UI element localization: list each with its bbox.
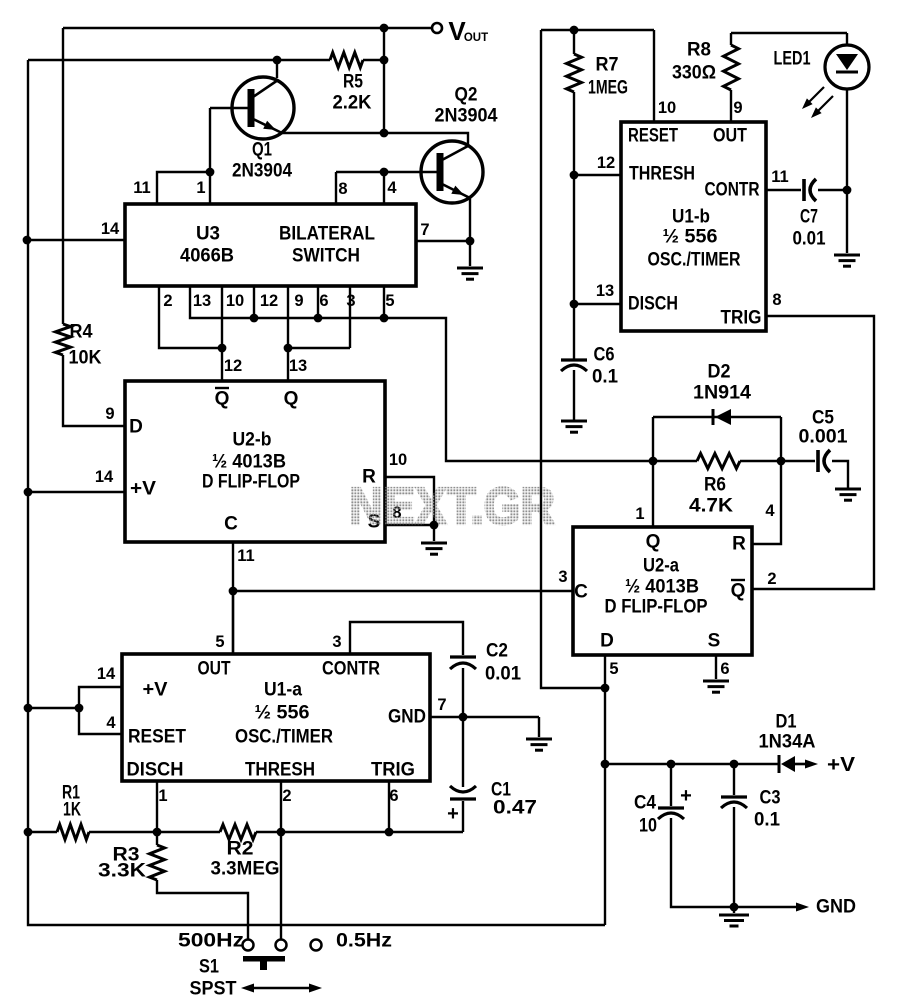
svg-text:+V: +V	[143, 680, 168, 701]
pin label 5	[385, 292, 394, 310]
junction dot rail pin6	[385, 828, 394, 837]
junction dot rail pin2	[277, 828, 286, 837]
pin label 2 U2-a	[767, 570, 776, 588]
svg-text:12: 12	[260, 292, 278, 310]
svg-text:RESET: RESET	[628, 126, 678, 147]
pin label 7	[420, 221, 429, 239]
svg-text:C6: C6	[594, 345, 615, 366]
wire pin11 link	[157, 172, 210, 204]
svg-text:5: 5	[609, 660, 618, 678]
pin label 14	[101, 220, 120, 238]
resistor R8	[672, 33, 739, 90]
junction dot +V left	[24, 488, 33, 497]
junction dot Q2 base node	[380, 168, 389, 177]
svg-text:0.01: 0.01	[793, 229, 826, 250]
wire U3 pin14	[27, 239, 125, 241]
wire rail R2-C1	[256, 831, 463, 833]
wire pin9 link	[288, 347, 350, 349]
svg-text:OSC./TIMER: OSC./TIMER	[235, 727, 333, 748]
wire U1-b CONTR	[766, 189, 801, 191]
ground GND rail	[719, 907, 749, 926]
svg-text:R8: R8	[687, 40, 711, 61]
svg-text:13: 13	[193, 292, 211, 310]
wire R7 down	[573, 92, 575, 360]
junction dot top rail	[380, 24, 389, 33]
svg-text:R: R	[732, 534, 746, 555]
svg-text:TRIG: TRIG	[721, 308, 762, 329]
svg-text:0.01: 0.01	[485, 664, 521, 685]
svg-text:1: 1	[158, 787, 167, 805]
svg-text:1K: 1K	[63, 800, 81, 821]
junction dot +V branch	[75, 704, 84, 713]
capacitor C1	[447, 780, 537, 826]
svg-text:10K: 10K	[69, 348, 102, 369]
svg-text:4: 4	[387, 179, 397, 197]
pin label 2 U1-a	[282, 787, 291, 805]
wire U1-b pin10 stub	[653, 30, 655, 122]
capacitor C6	[561, 345, 618, 388]
svg-text:3: 3	[332, 633, 341, 651]
wire Q2 emitter down	[469, 198, 471, 266]
wire U3 pin7	[416, 240, 470, 242]
ground LED	[834, 255, 860, 266]
ground C5	[835, 489, 861, 500]
svg-text:0.1: 0.1	[754, 810, 780, 831]
svg-text:OUT: OUT	[464, 32, 488, 44]
wire Q1 emitter to Q2 collector	[281, 133, 468, 147]
svg-text:GND: GND	[816, 897, 856, 918]
terminal 0.5Hz	[311, 931, 393, 952]
wire U1-a pin3 to C2	[350, 622, 463, 655]
wire U3 pin9	[287, 286, 289, 348]
wire R3 to switch	[157, 880, 248, 940]
pin label 5 U1-a	[215, 633, 224, 651]
svg-text:2: 2	[282, 787, 291, 805]
svg-text:½ 4013B: ½ 4013B	[212, 452, 286, 473]
wire U2-a Q stub	[652, 461, 654, 527]
wire C2 to GND node	[462, 668, 464, 717]
svg-text:12: 12	[224, 357, 242, 375]
junction dot +V rail	[24, 704, 33, 713]
pin label 9 U1-b	[733, 99, 742, 117]
transistor Q1	[210, 77, 294, 182]
svg-text:THRESH: THRESH	[245, 760, 315, 781]
pin label 4	[387, 179, 397, 197]
wire bottom rail left	[28, 831, 57, 833]
wire C5 to ground	[832, 461, 848, 488]
svg-text:14: 14	[97, 665, 116, 683]
IC U1-b 556 box	[621, 122, 766, 331]
wire U3 pin12	[253, 286, 255, 318]
svg-text:8: 8	[338, 180, 347, 198]
junction dot emitter node	[380, 129, 389, 138]
svg-text:D FLIP-FLOP: D FLIP-FLOP	[202, 472, 300, 493]
svg-text:U2-b: U2-b	[233, 430, 272, 451]
svg-text:C: C	[224, 514, 238, 535]
terminal 500Hz	[178, 931, 254, 952]
svg-text:11: 11	[237, 547, 254, 565]
wire U1-b TRIG	[752, 316, 874, 589]
arrow LED emission 2	[811, 96, 833, 118]
wire U2-b S pin	[385, 524, 434, 526]
svg-text:9: 9	[294, 292, 303, 310]
svg-text:2.2K: 2.2K	[333, 93, 372, 114]
svg-text:C: C	[574, 582, 588, 603]
svg-text:D2: D2	[708, 362, 731, 383]
wire left long vertical +V	[28, 60, 605, 925]
wire C4 down	[671, 818, 734, 907]
wire U2-b R pin	[385, 477, 434, 541]
svg-text:D: D	[129, 417, 143, 438]
svg-text:C4: C4	[634, 793, 656, 814]
svg-text:0.5Hz: 0.5Hz	[336, 931, 392, 952]
capacitor C4	[634, 764, 692, 837]
pin label 2	[163, 292, 172, 310]
junction dot C4 top	[667, 760, 676, 769]
svg-text:11: 11	[133, 179, 150, 197]
pin label 4 U2-a	[765, 502, 775, 520]
svg-text:9: 9	[105, 405, 114, 423]
svg-text:+: +	[447, 803, 459, 825]
svg-text:D FLIP-FLOP: D FLIP-FLOP	[605, 597, 708, 618]
svg-text:SPST: SPST	[190, 979, 237, 1000]
junction dot C7 node	[843, 186, 852, 195]
svg-text:Q: Q	[646, 532, 661, 553]
svg-text:OUT: OUT	[198, 659, 231, 680]
svg-text:0.001: 0.001	[799, 427, 848, 448]
wire U3 pin4 stub	[383, 172, 385, 204]
wire R8 pin9 stub	[730, 90, 732, 122]
svg-text:SWITCH: SWITCH	[292, 246, 360, 267]
junction dot R6 right	[777, 457, 786, 466]
svg-text:U2-a: U2-a	[643, 556, 679, 577]
wire U3 pin2	[159, 286, 222, 348]
svg-text:3.3K: 3.3K	[98, 861, 146, 882]
junction dot pin14 node	[23, 236, 32, 245]
resistor R1	[57, 783, 89, 840]
svg-text:6: 6	[720, 660, 729, 678]
wire R5 right lead	[363, 59, 384, 61]
svg-text:13: 13	[596, 282, 614, 300]
wire right long vertical	[541, 30, 605, 688]
junction dot pin6 node	[314, 314, 323, 323]
pin label 11	[133, 179, 150, 197]
svg-text:10: 10	[226, 292, 244, 310]
wire +V vertical	[604, 688, 606, 925]
wire R6 to C5	[781, 460, 815, 462]
junction dot C node	[229, 587, 238, 596]
wire U1-a +V pin	[79, 687, 122, 734]
svg-text:11: 11	[771, 168, 788, 186]
capacitor C5	[799, 408, 848, 473]
wire U3 pin13 bus	[190, 286, 653, 461]
svg-text:2N3904: 2N3904	[435, 106, 498, 127]
transistor Q2	[336, 85, 498, 204]
svg-text:TRIG: TRIG	[371, 760, 415, 781]
svg-text:4: 4	[106, 714, 116, 732]
pin label 9	[294, 292, 303, 310]
svg-text:2: 2	[767, 570, 776, 588]
pin label 1 U2-a	[635, 505, 644, 523]
svg-text:OUT: OUT	[713, 126, 747, 147]
svg-text:0.47: 0.47	[493, 798, 537, 819]
junction dot GND rail	[730, 903, 739, 912]
svg-text:10: 10	[658, 99, 676, 117]
ground U2-b RS	[421, 543, 447, 554]
svg-text:5: 5	[215, 633, 224, 651]
ground C6	[561, 421, 587, 432]
pin label 13	[193, 292, 211, 310]
svg-text:+: +	[680, 785, 692, 807]
pin label 1 U1-a	[158, 787, 167, 805]
wire U3 pin8 stub	[335, 172, 337, 204]
wire top V_OUT rail	[63, 27, 432, 29]
wire Q1 base down to U3 pin 1	[209, 108, 211, 204]
switch S1 SPST	[190, 956, 286, 1000]
pin label 6 U2-a	[720, 660, 729, 678]
junction dot R5 left	[273, 56, 282, 65]
pin label 10	[226, 292, 244, 310]
wire C6 to ground	[573, 370, 575, 420]
pin label 11 U2-b	[237, 547, 254, 565]
junction dot C3 top	[730, 760, 739, 769]
svg-text:U1-a: U1-a	[264, 680, 302, 701]
junction dot DISCH	[570, 300, 579, 309]
resistor R5	[330, 53, 372, 114]
pin label 10 U1-b	[658, 99, 676, 117]
pin label 6 U1-a	[389, 787, 398, 805]
wire R8 top link	[731, 32, 847, 34]
svg-text:C2: C2	[486, 641, 508, 662]
svg-text:Q: Q	[215, 389, 230, 410]
pin label 5 U2-a	[609, 660, 618, 678]
pin label 8 U2-b	[392, 504, 401, 522]
svg-text:14: 14	[101, 220, 120, 238]
wire U2-b C pin down	[232, 542, 234, 654]
svg-text:D1: D1	[776, 712, 797, 733]
wire U3 pin3	[349, 286, 351, 348]
junction dot GND node	[459, 713, 468, 722]
pin label 12 U2-b	[224, 357, 242, 375]
wire U2-b pin13 stub	[287, 348, 289, 381]
wire U2-b +V	[28, 491, 125, 493]
wire D2 right	[780, 417, 782, 461]
wire U3 pin10	[221, 286, 223, 348]
svg-text:OSC./TIMER: OSC./TIMER	[648, 250, 741, 271]
svg-text:R2: R2	[227, 839, 254, 860]
svg-text:DISCH: DISCH	[628, 294, 678, 315]
junction dot pin10 node	[218, 344, 227, 353]
pin label 12	[260, 292, 278, 310]
svg-text:R7: R7	[596, 55, 619, 76]
pin label 11 U1-b	[771, 168, 788, 186]
svg-text:+V: +V	[130, 479, 156, 500]
svg-text:THRESH: THRESH	[629, 164, 695, 185]
wire U2-a D stub	[604, 655, 606, 688]
svg-text:D: D	[600, 631, 614, 652]
svg-text:BILATERAL: BILATERAL	[279, 224, 375, 245]
junction dot R7 top	[570, 26, 579, 35]
wire C7 to LED line	[818, 189, 847, 191]
svg-text:7: 7	[420, 221, 429, 239]
junction dot rail left	[24, 828, 33, 837]
pin label 3 U1-a	[332, 633, 341, 651]
svg-text:13: 13	[289, 357, 307, 375]
wire U1-a pin6 stub	[388, 781, 390, 832]
resistor R4	[56, 322, 102, 369]
svg-text:9: 9	[733, 99, 742, 117]
arrow SPST travel	[241, 984, 322, 993]
pin label 13 U1-b	[596, 282, 614, 300]
junction dot R5 right	[380, 56, 389, 65]
pin label 3	[346, 292, 355, 310]
LED LED1	[774, 33, 870, 89]
wire C link to U2-a	[233, 590, 573, 592]
wire C3 down	[733, 807, 735, 907]
svg-text:1MEG: 1MEG	[588, 78, 628, 99]
svg-text:4: 4	[765, 502, 775, 520]
svg-text:12: 12	[597, 154, 615, 172]
wire U1-a pin2 stub	[280, 781, 282, 940]
svg-text:2N3904: 2N3904	[232, 161, 292, 182]
svg-text:Q: Q	[284, 389, 299, 410]
junction dot +V rail node	[601, 760, 610, 769]
wire U1-a pin1 stub	[156, 781, 158, 832]
wire left vertical to R4	[62, 28, 64, 324]
wire +V link	[28, 707, 79, 709]
svg-text:3: 3	[346, 292, 355, 310]
svg-text:Q: Q	[731, 581, 746, 602]
resistor R2	[211, 825, 280, 880]
capacitor C3	[721, 764, 781, 831]
svg-text:2: 2	[163, 292, 172, 310]
pin label 8 U1-b	[772, 291, 781, 309]
svg-text:1: 1	[635, 505, 644, 523]
wire LED cathode down	[846, 89, 848, 253]
svg-text:NEXT.GR: NEXT.GR	[349, 478, 555, 536]
wire reset top rail	[541, 29, 654, 31]
svg-text:LED1: LED1	[774, 49, 811, 70]
svg-text:R6: R6	[704, 475, 726, 496]
svg-text:RESET: RESET	[128, 727, 186, 748]
svg-text:½ 556: ½ 556	[663, 227, 718, 248]
svg-text:7: 7	[437, 696, 446, 714]
svg-text:0.1: 0.1	[592, 367, 618, 388]
junction dot rail pin1	[153, 828, 162, 837]
pin label 6	[319, 292, 328, 310]
wire U2-b pin12 stub	[221, 348, 223, 381]
svg-text:S: S	[708, 631, 721, 652]
IC U2-b 4013B box	[125, 381, 385, 542]
svg-text:R4: R4	[70, 322, 93, 343]
junction dot pin7 node	[466, 237, 475, 246]
svg-text:½ 556: ½ 556	[255, 703, 310, 724]
svg-text:4.7K: 4.7K	[689, 496, 733, 517]
junction dot RS node	[430, 521, 439, 530]
wire U1-b THRESH	[574, 174, 621, 176]
svg-text:4066B: 4066B	[180, 246, 234, 267]
pin label 14 U1-a	[97, 665, 116, 683]
svg-text:3.3MEG: 3.3MEG	[211, 859, 280, 880]
svg-text:6: 6	[389, 787, 398, 805]
svg-text:500Hz: 500Hz	[178, 931, 244, 952]
wire Q1 collector lead	[276, 60, 278, 78]
resistor R3	[98, 832, 165, 882]
pin label 4 U1-a	[106, 714, 116, 732]
svg-text:C3: C3	[760, 788, 781, 809]
pin label 3 U2-a	[558, 568, 567, 586]
pin label 12 U1-b	[597, 154, 615, 172]
arrow +V	[795, 754, 856, 776]
watermark NEXT.GR	[349, 478, 555, 536]
svg-text:1N914: 1N914	[693, 383, 751, 404]
wire GND stub	[538, 717, 540, 737]
diode D2	[653, 362, 781, 426]
svg-text:10: 10	[389, 451, 407, 469]
wire D2 left	[652, 417, 654, 461]
junction dot pin5 node	[380, 314, 389, 323]
wire U2-a S pin	[715, 655, 717, 679]
wire U1-a GND pin	[430, 716, 539, 718]
svg-text:Q2: Q2	[455, 85, 478, 106]
pin label 9 U2-b	[105, 405, 114, 423]
junction dot pin9 node	[284, 344, 293, 353]
svg-text:S1: S1	[199, 957, 219, 978]
wire Vout to emitter rail	[383, 28, 385, 133]
svg-text:CONTR: CONTR	[705, 180, 760, 201]
ground Q2 emitter	[457, 268, 483, 279]
pin label 10 U2-b	[389, 451, 407, 469]
svg-text:330Ω: 330Ω	[672, 63, 716, 84]
svg-text:DISCH: DISCH	[127, 760, 184, 781]
svg-text:1N34A: 1N34A	[759, 732, 816, 753]
svg-text:C7: C7	[800, 207, 818, 228]
wire +V rail	[605, 763, 779, 765]
svg-text:14: 14	[95, 468, 114, 486]
junction dot D node	[601, 684, 610, 693]
arrow LED emission 1	[802, 87, 824, 109]
pin label 1	[196, 179, 205, 197]
ground U1-a GND	[526, 739, 552, 750]
resistor R7	[567, 30, 629, 99]
svg-text:1: 1	[196, 179, 205, 197]
pin label 13 U2-b	[289, 357, 307, 375]
junction dot pin12 node	[250, 314, 259, 323]
junction dot base node	[206, 168, 215, 177]
svg-text:6: 6	[319, 292, 328, 310]
junction dot R6 left	[649, 457, 658, 466]
wire U3 pin5	[383, 286, 385, 318]
svg-text:U1-b: U1-b	[672, 207, 710, 228]
svg-text:Q1: Q1	[252, 140, 272, 161]
capacitor C2	[450, 641, 521, 685]
svg-text:R5: R5	[343, 72, 363, 93]
wire +V rail left	[28, 59, 330, 61]
svg-text:3: 3	[558, 568, 567, 586]
svg-text:U3: U3	[196, 224, 220, 245]
svg-text:GND: GND	[388, 707, 426, 728]
wire U2-a R pin	[752, 461, 781, 544]
svg-text:+V: +V	[827, 754, 856, 776]
junction dot THRESH	[570, 171, 579, 180]
terminal center	[276, 940, 287, 951]
resistor R6	[653, 454, 781, 517]
ground U2-a S	[703, 681, 729, 692]
capacitor C7	[793, 179, 826, 250]
pin label 7 U1-a	[437, 696, 446, 714]
pin label 8	[338, 180, 347, 198]
svg-text:C5: C5	[812, 408, 834, 429]
